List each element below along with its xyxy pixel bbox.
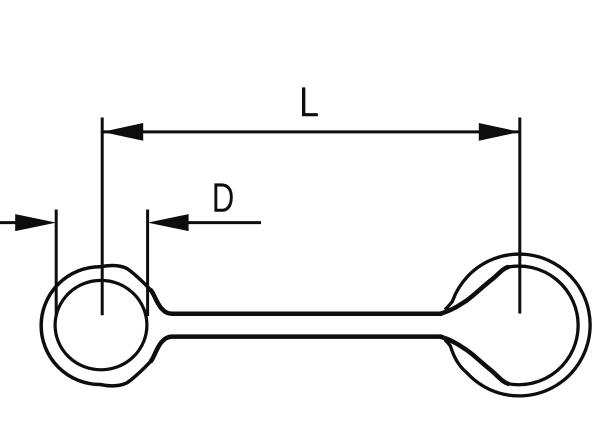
extension line right (center line of right loop) — [518, 118, 521, 314]
bottom wire (S-curve + straight) — [151, 337, 441, 361]
arrowhead D left — [15, 214, 56, 231]
arrowhead L right — [479, 123, 520, 141]
D dimension tail right — [186, 221, 261, 224]
D dimension tail left — [0, 221, 18, 224]
right loop outer contour with pinch tips — [445, 254, 590, 396]
dimension line L — [102, 130, 520, 133]
top wire right transition into right loop — [440, 267, 508, 314]
bottom wire right transition into right loop — [440, 337, 508, 384]
arrowhead D right — [148, 214, 189, 231]
left loop inner circle — [55, 280, 147, 369]
top wire (S-curve + straight) — [151, 290, 441, 314]
arrowhead L left — [102, 123, 143, 141]
label D — [214, 183, 232, 211]
label L — [302, 87, 318, 116]
D tick right — [146, 210, 149, 317]
right loop inner circle (wire continues) — [508, 266, 578, 385]
left loop outer contour (flares into wire at right mouth) — [41, 265, 151, 385]
extension line left (center line of left loop) — [101, 118, 104, 316]
D tick left — [55, 210, 58, 316]
